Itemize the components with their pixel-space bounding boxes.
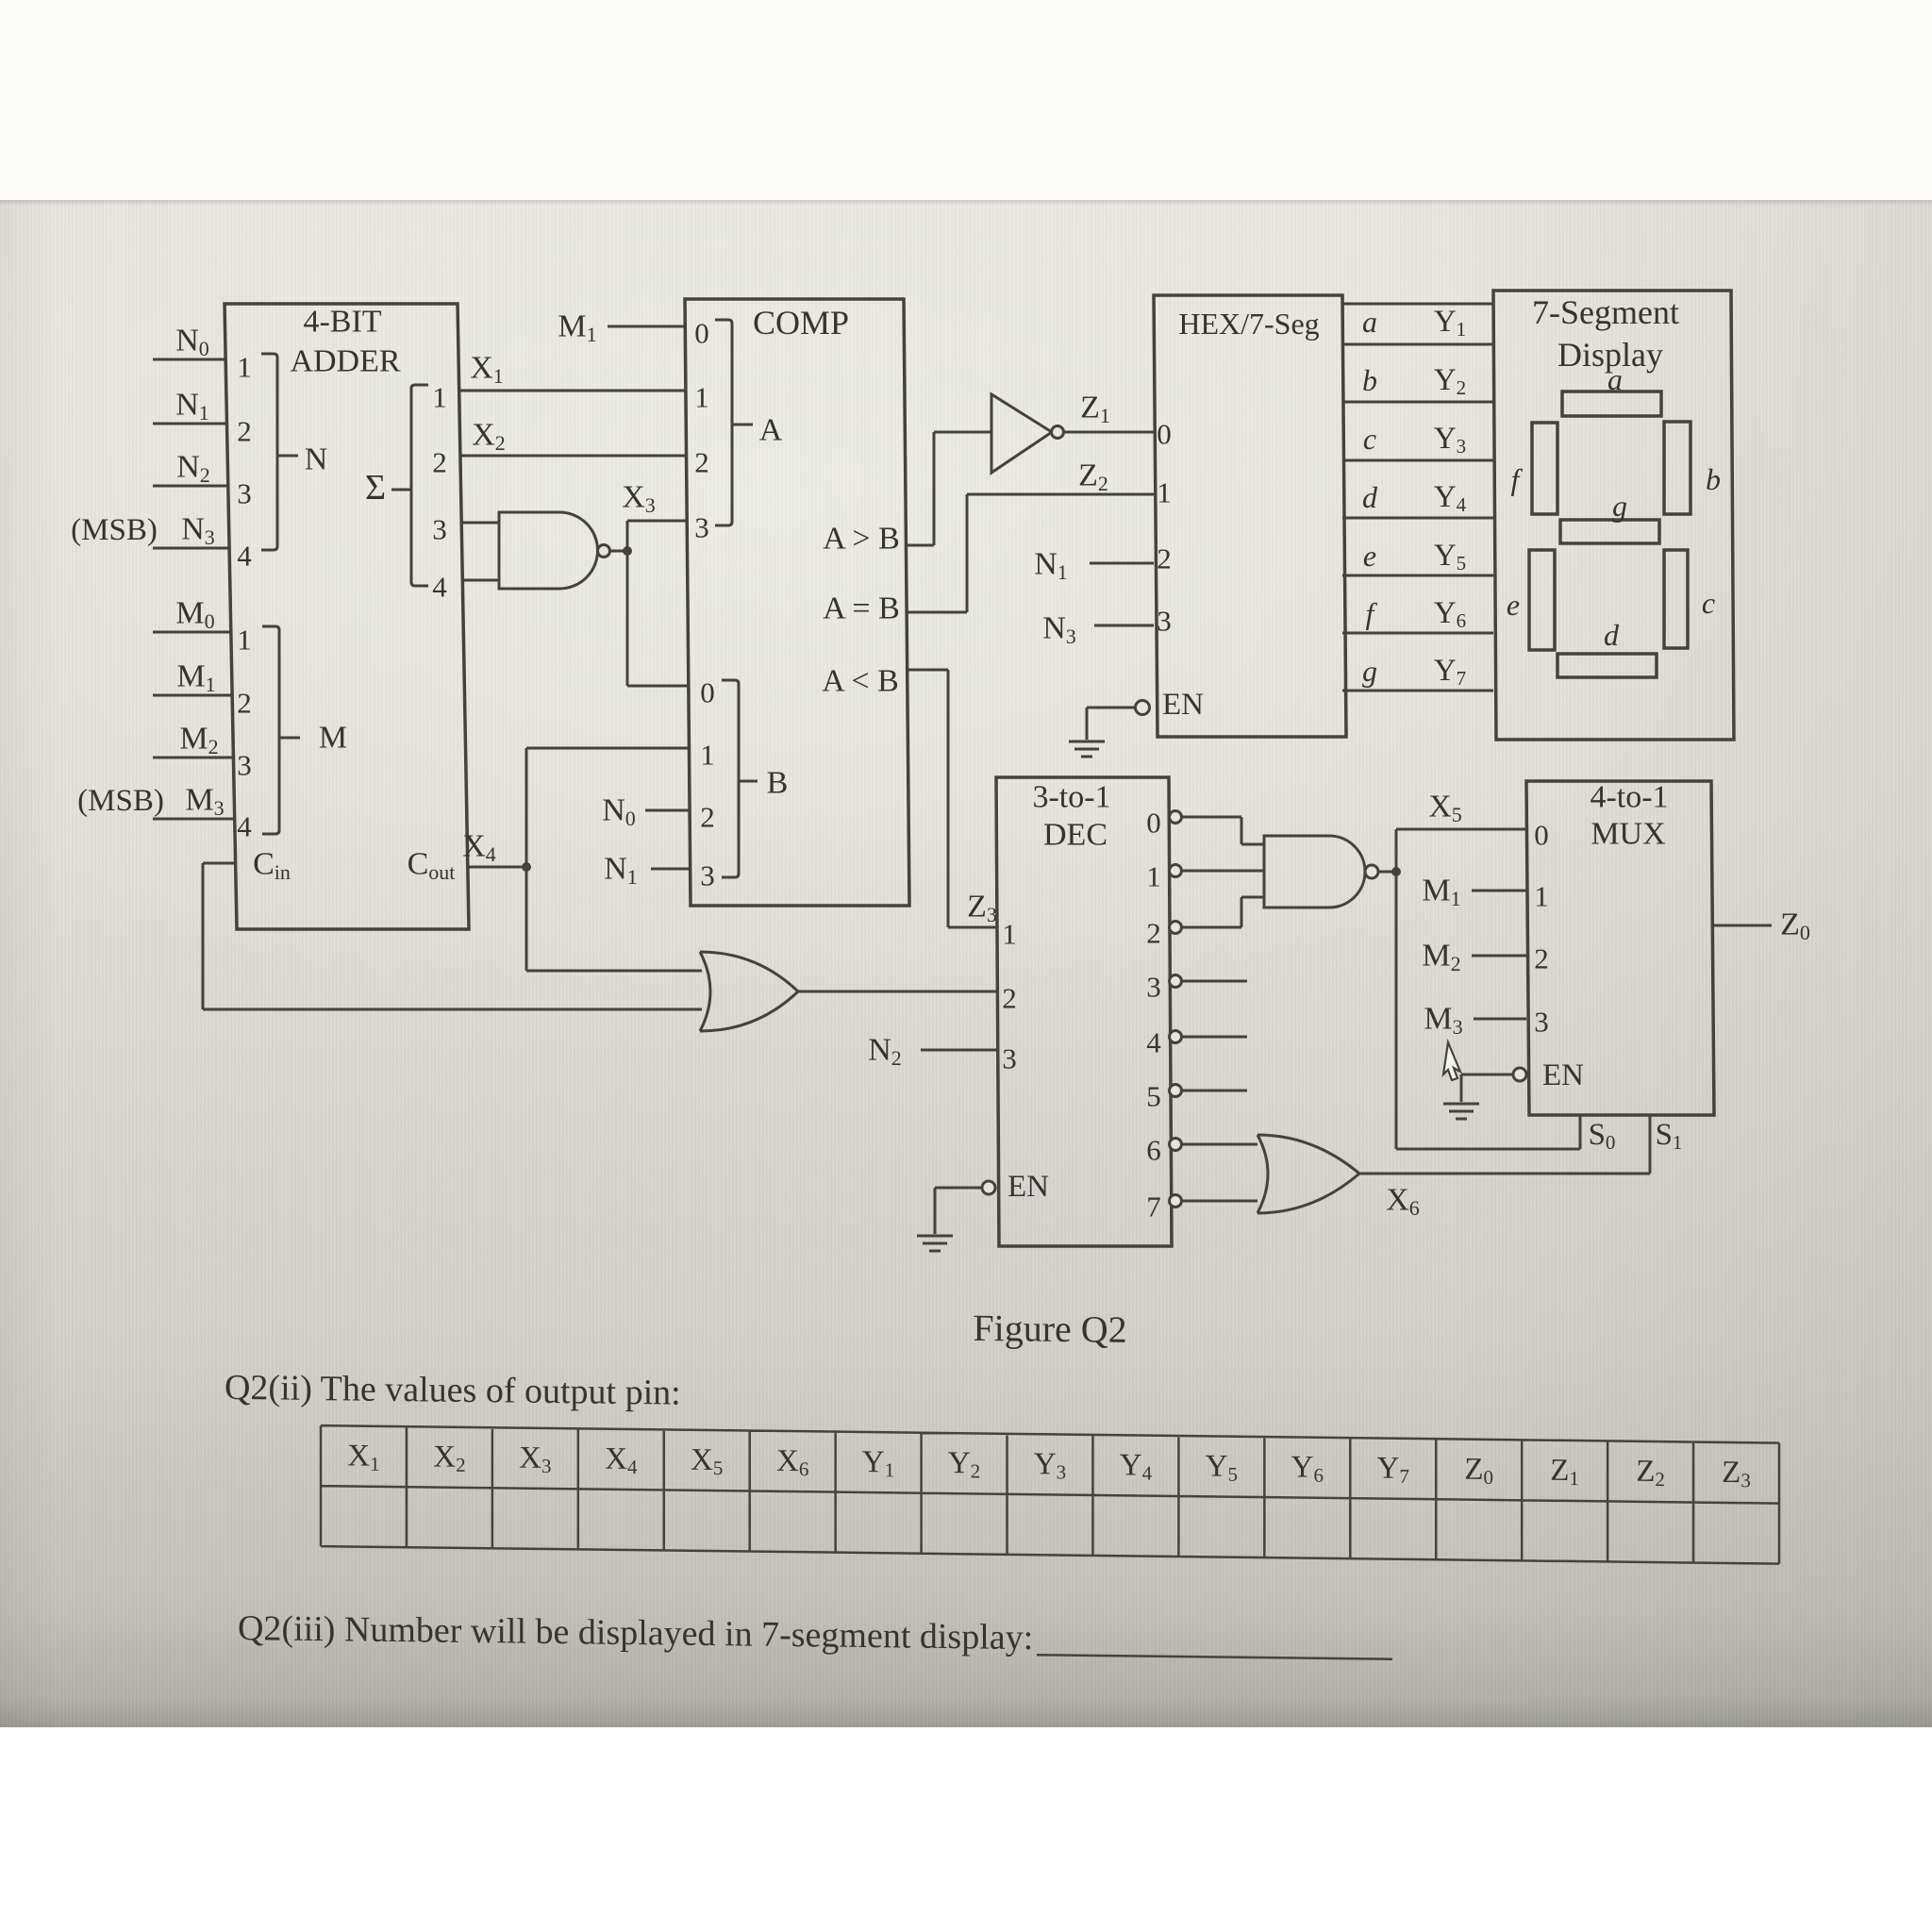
svg-text:Y6: Y6 bbox=[1434, 596, 1466, 632]
svg-text:1: 1 bbox=[1146, 860, 1161, 893]
svg-text:N1: N1 bbox=[1034, 547, 1068, 584]
svg-text:2: 2 bbox=[432, 446, 447, 479]
svg-text:A > B: A > B bbox=[823, 522, 900, 557]
svg-text:N2: N2 bbox=[868, 1033, 902, 1070]
svg-text:c: c bbox=[1363, 422, 1376, 456]
svg-text:Y3: Y3 bbox=[1034, 1447, 1066, 1483]
svg-text:X1: X1 bbox=[470, 351, 504, 388]
svg-text:MUX: MUX bbox=[1591, 817, 1665, 852]
svg-text:Y5: Y5 bbox=[1206, 1449, 1238, 1485]
svg-text:Z1: Z1 bbox=[1080, 391, 1110, 427]
svg-text:4: 4 bbox=[237, 540, 252, 573]
svg-text:Z0: Z0 bbox=[1464, 1453, 1493, 1489]
svg-text:N3: N3 bbox=[181, 512, 215, 549]
svg-text:A: A bbox=[759, 413, 783, 448]
svg-text:3: 3 bbox=[700, 859, 715, 892]
svg-text:Z2: Z2 bbox=[1078, 458, 1108, 495]
svg-text:2: 2 bbox=[1146, 917, 1161, 950]
svg-text:4: 4 bbox=[237, 810, 252, 843]
svg-text:d: d bbox=[1604, 618, 1620, 652]
svg-text:M1: M1 bbox=[176, 659, 215, 696]
svg-text:0: 0 bbox=[700, 676, 715, 709]
svg-text:N3: N3 bbox=[1042, 611, 1076, 648]
svg-text:d: d bbox=[1362, 480, 1378, 514]
svg-text:2: 2 bbox=[237, 687, 252, 720]
svg-text:Figure Q2: Figure Q2 bbox=[973, 1307, 1126, 1351]
svg-text:3: 3 bbox=[237, 749, 252, 782]
svg-text:DEC: DEC bbox=[1043, 818, 1108, 853]
svg-text:Y3: Y3 bbox=[1434, 422, 1466, 458]
svg-text:4-BIT: 4-BIT bbox=[303, 305, 381, 340]
svg-text:X3: X3 bbox=[519, 1441, 551, 1477]
svg-text:Q2(ii) The values of output p: Q2(ii) The values of output pin: bbox=[225, 1368, 681, 1413]
svg-text:A < B: A < B bbox=[822, 664, 899, 699]
svg-text:2: 2 bbox=[1157, 542, 1172, 575]
svg-text:Y2: Y2 bbox=[1434, 363, 1466, 399]
svg-text:N1: N1 bbox=[604, 852, 638, 889]
svg-text:M2: M2 bbox=[179, 722, 218, 758]
svg-text:b: b bbox=[1362, 363, 1377, 397]
svg-text:COMP: COMP bbox=[753, 304, 849, 341]
svg-text:N2: N2 bbox=[176, 450, 210, 487]
svg-text:1: 1 bbox=[1002, 918, 1017, 951]
svg-text:N0: N0 bbox=[175, 324, 209, 360]
svg-text:4: 4 bbox=[1146, 1026, 1161, 1059]
svg-text:EN: EN bbox=[1542, 1058, 1584, 1092]
svg-text:1: 1 bbox=[700, 739, 715, 772]
svg-text:Y6: Y6 bbox=[1291, 1450, 1324, 1486]
svg-text:b: b bbox=[1706, 462, 1721, 496]
svg-text:EN: EN bbox=[1008, 1170, 1049, 1204]
svg-text:a: a bbox=[1362, 305, 1377, 339]
svg-text:S0: S0 bbox=[1589, 1118, 1616, 1154]
svg-text:S1: S1 bbox=[1656, 1118, 1683, 1154]
svg-text:3: 3 bbox=[1157, 605, 1172, 638]
svg-text:2: 2 bbox=[1534, 942, 1549, 975]
svg-text:7-Segment: 7-Segment bbox=[1532, 293, 1679, 331]
svg-text:X6: X6 bbox=[776, 1444, 808, 1480]
svg-text:1: 1 bbox=[694, 381, 709, 414]
svg-text:Z2: Z2 bbox=[1636, 1455, 1665, 1491]
svg-text:M1: M1 bbox=[558, 309, 596, 346]
svg-text:X4: X4 bbox=[462, 829, 496, 866]
svg-text:Z1: Z1 bbox=[1550, 1454, 1579, 1490]
svg-text:g: g bbox=[1612, 489, 1627, 523]
svg-text:7: 7 bbox=[1146, 1191, 1161, 1224]
svg-text:M2: M2 bbox=[1422, 939, 1460, 975]
svg-text:2: 2 bbox=[694, 446, 709, 479]
svg-text:0: 0 bbox=[694, 317, 709, 350]
svg-text:2: 2 bbox=[700, 801, 715, 834]
svg-text:X3: X3 bbox=[622, 480, 656, 517]
svg-text:3-to-1: 3-to-1 bbox=[1032, 780, 1110, 815]
svg-text:M3: M3 bbox=[185, 783, 224, 820]
svg-text:Y1: Y1 bbox=[862, 1445, 894, 1481]
svg-text:Y7: Y7 bbox=[1434, 654, 1466, 690]
svg-text:2: 2 bbox=[237, 415, 252, 448]
svg-text:B: B bbox=[767, 766, 789, 801]
svg-text:Y7: Y7 bbox=[1377, 1452, 1409, 1488]
svg-text:M3: M3 bbox=[1424, 1002, 1462, 1039]
svg-text:4: 4 bbox=[432, 571, 447, 604]
svg-text:Q2(iii) Number will be display: Q2(iii) Number will be displayed in 7-se… bbox=[238, 1608, 1033, 1657]
svg-text:M0: M0 bbox=[175, 596, 214, 633]
svg-text:a: a bbox=[1607, 362, 1623, 396]
svg-text:1: 1 bbox=[237, 351, 252, 384]
svg-text:Y2: Y2 bbox=[948, 1446, 980, 1482]
svg-text:Cout: Cout bbox=[408, 847, 456, 884]
svg-text:1: 1 bbox=[237, 624, 252, 657]
svg-text:3: 3 bbox=[237, 477, 252, 510]
svg-text:N1: N1 bbox=[175, 388, 209, 425]
svg-text:A = B: A = B bbox=[823, 591, 900, 626]
svg-text:3: 3 bbox=[1002, 1042, 1017, 1075]
svg-text:5: 5 bbox=[1146, 1080, 1161, 1113]
svg-text:M: M bbox=[319, 721, 347, 756]
svg-text:1: 1 bbox=[432, 381, 447, 414]
svg-text:c: c bbox=[1702, 586, 1715, 620]
svg-text:EN: EN bbox=[1162, 688, 1204, 722]
svg-text:M1: M1 bbox=[1422, 874, 1460, 910]
svg-text:3: 3 bbox=[1146, 971, 1161, 1004]
svg-text:X2: X2 bbox=[433, 1441, 465, 1476]
svg-text:3: 3 bbox=[694, 511, 709, 544]
svg-text:e: e bbox=[1363, 539, 1376, 573]
svg-text:f: f bbox=[1366, 596, 1378, 630]
svg-text:6: 6 bbox=[1146, 1134, 1161, 1167]
svg-text:1: 1 bbox=[1534, 880, 1549, 913]
svg-text:0: 0 bbox=[1534, 819, 1549, 852]
svg-text:Z0: Z0 bbox=[1780, 908, 1810, 944]
svg-text:X2: X2 bbox=[472, 418, 506, 455]
svg-text:X1: X1 bbox=[347, 1439, 379, 1474]
svg-text:Y5: Y5 bbox=[1434, 539, 1466, 575]
svg-text:4-to-1: 4-to-1 bbox=[1590, 780, 1668, 815]
svg-text:(MSB): (MSB) bbox=[71, 513, 158, 547]
svg-text:(MSB): (MSB) bbox=[77, 784, 164, 818]
svg-text:3: 3 bbox=[432, 513, 447, 546]
svg-text:X4: X4 bbox=[605, 1442, 638, 1478]
svg-text:N: N bbox=[305, 442, 328, 477]
svg-text:Y4: Y4 bbox=[1120, 1448, 1153, 1484]
svg-text:e: e bbox=[1507, 588, 1520, 622]
svg-text:0: 0 bbox=[1146, 807, 1161, 840]
svg-text:ADDER: ADDER bbox=[290, 344, 400, 379]
svg-text:Y1: Y1 bbox=[1434, 305, 1466, 341]
svg-text:N0: N0 bbox=[602, 793, 636, 830]
svg-text:g: g bbox=[1362, 654, 1377, 688]
svg-text:X6: X6 bbox=[1386, 1183, 1420, 1220]
svg-text:1: 1 bbox=[1157, 476, 1172, 509]
svg-text:HEX/7-Seg: HEX/7-Seg bbox=[1178, 307, 1319, 341]
svg-text:Cin: Cin bbox=[253, 847, 291, 884]
svg-text:f: f bbox=[1511, 462, 1524, 496]
svg-text:Z3: Z3 bbox=[967, 890, 997, 926]
svg-text:2: 2 bbox=[1002, 982, 1017, 1015]
svg-text:Σ: Σ bbox=[365, 468, 386, 508]
svg-text:0: 0 bbox=[1157, 418, 1172, 451]
svg-text:X5: X5 bbox=[691, 1443, 723, 1479]
svg-text:3: 3 bbox=[1534, 1006, 1549, 1039]
svg-text:Y4: Y4 bbox=[1434, 480, 1467, 516]
svg-text:Z3: Z3 bbox=[1722, 1456, 1751, 1491]
svg-text:X5: X5 bbox=[1428, 790, 1462, 826]
